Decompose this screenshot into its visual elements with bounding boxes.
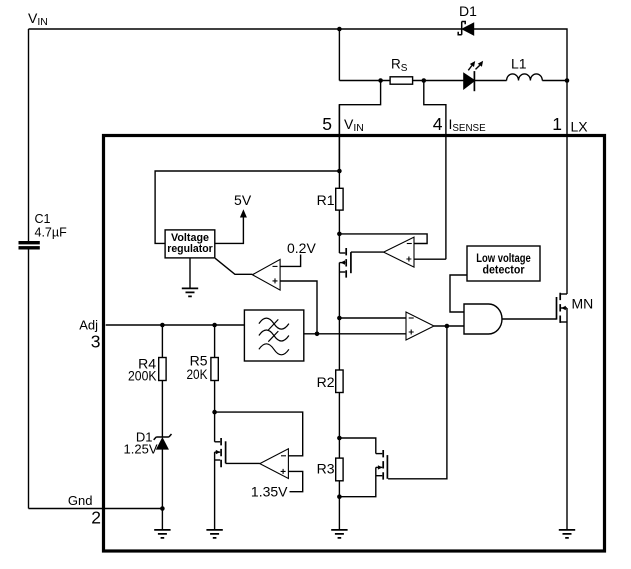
wire M3 source: [339, 467, 375, 496]
svg-text:2: 2: [91, 508, 101, 528]
junction dot R5 branch: [212, 323, 217, 328]
wire MN source to ground: [566, 308, 568, 530]
wire sense loop from VIN node: [339, 234, 427, 244]
svg-text:Adj: Adj: [79, 318, 98, 333]
transistor MN (output NMOS): [557, 293, 568, 323]
wire regulator branch: [155, 171, 339, 243]
wire comparator output to AND gate: [434, 325, 464, 327]
wire U1 minus input to 0.2V: [280, 255, 301, 267]
ground (MN): [559, 530, 575, 538]
resistor R1: [336, 188, 343, 210]
capacitor C1: [19, 241, 40, 250]
wire left rail below C1: [28, 250, 30, 509]
junction dot filter output: [315, 332, 320, 337]
wire second rail left: [339, 80, 390, 82]
op-amp U5 (1.35V, points left): [260, 449, 289, 479]
wire Adj to R5: [214, 325, 216, 358]
svg-text:detector: detector: [483, 265, 525, 277]
junction dot: [337, 27, 342, 32]
inductor L1: [507, 74, 543, 81]
junction dot R3 top: [337, 436, 342, 441]
svg-text:5V: 5V: [234, 192, 252, 208]
wire Adj line: [106, 324, 245, 326]
wire U1 plus input down to filter output node: [280, 281, 317, 334]
wire pin4 jog: [424, 81, 446, 260]
wire R3 to ground: [338, 481, 340, 530]
svg-text:20K: 20K: [187, 366, 209, 382]
svg-text:C1: C1: [35, 212, 51, 226]
wire M1 source rail down to comparator node: [338, 263, 340, 370]
svg-text:VIN: VIN: [344, 116, 364, 134]
junction dot LX top: [565, 78, 570, 83]
svg-text:3: 3: [91, 332, 101, 352]
label voltage regulator: [167, 232, 213, 255]
wire regulator to ground: [189, 258, 191, 288]
wire R4 to zener: [161, 381, 163, 438]
svg-text:R2: R2: [317, 374, 335, 390]
svg-text:ISENSE: ISENSE: [449, 116, 487, 134]
op-amp U2 (current sense, points left): [384, 237, 414, 267]
label low voltage detector: [476, 253, 531, 276]
junction dot RS right: [422, 78, 427, 83]
AND gate U4: [464, 304, 502, 334]
wire AND output to MN gate: [502, 318, 557, 320]
wire R5 to M2: [214, 381, 216, 442]
svg-text:MN: MN: [572, 296, 594, 312]
wire R2 to R3 node: [338, 393, 340, 459]
junction dot RS left: [378, 78, 383, 83]
wire LED to L1: [474, 80, 506, 82]
LED: [464, 61, 483, 91]
wire filter output to comparator: [304, 333, 406, 335]
wire detector to AND gate: [450, 275, 467, 312]
junction dot Gnd: [160, 506, 165, 511]
filter sine 3: [259, 344, 289, 355]
svg-text:R1: R1: [317, 192, 335, 208]
resistor RS: [390, 77, 413, 84]
svg-text:Gnd: Gnd: [68, 493, 93, 508]
transistor M3 (NMOS across R3): [376, 450, 388, 480]
wire regulator corner diagonal to op-amp U1 output: [215, 258, 252, 274]
junction dot R3 bottom: [337, 494, 342, 499]
filter box: [244, 310, 303, 361]
filter sine 1 with slash: [259, 318, 289, 330]
svg-text:VIN: VIN: [28, 10, 48, 28]
wire left VIN rail: [28, 29, 30, 241]
svg-text:L1: L1: [511, 56, 527, 72]
junction dot sense branch: [337, 232, 342, 237]
svg-text:200K: 200K: [128, 368, 157, 384]
wire RS to LED: [413, 80, 464, 82]
svg-text:regulator: regulator: [167, 243, 213, 255]
low voltage detector box: [467, 246, 540, 281]
resistor R3: [336, 458, 343, 481]
diode D1 (Schottky, top): [458, 22, 473, 35]
resistor R4: [159, 358, 166, 381]
IC package outline: [104, 136, 605, 552]
svg-text:4.7µF: 4.7µF: [35, 226, 68, 240]
wire U2 plus input to ISENSE: [414, 258, 446, 260]
junction dot comparator branch: [337, 316, 342, 321]
wire L1 to LX: [542, 80, 567, 82]
zener diode D1 (1.25V): [154, 434, 172, 449]
wire regulator to 5V arrow: [215, 217, 244, 244]
ground (regulator): [182, 288, 198, 296]
voltage regulator box: [165, 230, 215, 258]
wire U2 output to M1 gate: [351, 251, 384, 253]
wire M2 source to ground: [214, 452, 216, 529]
svg-text:1.25V: 1.25V: [124, 442, 158, 457]
wire Adj to R4: [161, 325, 163, 358]
wire U5 output to M2 gate: [226, 462, 260, 464]
wire pin1 LX drop: [566, 81, 568, 295]
svg-text:1: 1: [552, 114, 562, 134]
svg-text:Low voltage: Low voltage: [476, 253, 531, 265]
resistor R5: [211, 358, 218, 381]
ground (M2 R5): [206, 530, 222, 538]
svg-text:LX: LX: [571, 119, 589, 135]
resistor R2: [336, 370, 343, 393]
junction dot comparator output: [445, 324, 450, 329]
op-amp U1 (0.2V comparator, points left): [252, 259, 280, 290]
wire R1 to M1: [338, 210, 340, 253]
transistor M1 (PMOS near R1): [339, 248, 351, 278]
wire comparator output down to M3 gate: [388, 326, 447, 479]
filter sine 2 with slash: [259, 330, 289, 342]
ground (zener): [154, 530, 170, 538]
svg-text:D1: D1: [459, 3, 477, 19]
wire top VIN rail: [29, 28, 462, 30]
wire VIN rail inside IC to R1: [338, 105, 340, 189]
wire VIN drop to second rail: [338, 29, 340, 81]
5V arrow: [240, 209, 247, 217]
svg-text:0.2V: 0.2V: [287, 240, 316, 256]
wire pin5 jog: [339, 81, 380, 172]
svg-text:R3: R3: [317, 461, 335, 477]
wire M2 node feedback to op-amp minus: [215, 412, 303, 456]
svg-text:1.35V: 1.35V: [251, 484, 288, 500]
svg-text:4: 4: [433, 114, 443, 134]
ground (R2 R3 chain): [331, 530, 347, 538]
wire top rail right of D1: [474, 29, 568, 81]
junction dot regulator branch: [337, 169, 342, 174]
junction dot M2 drain node: [212, 410, 217, 415]
wire Gnd rail to pin 2: [29, 508, 163, 510]
wire comparator minus input: [339, 317, 406, 319]
svg-text:RS: RS: [391, 57, 408, 74]
junction dot R4 branch: [160, 323, 165, 328]
wire zener to ground: [161, 449, 163, 530]
svg-text:5: 5: [322, 114, 332, 134]
wire U5 plus input to 1.35V: [288, 471, 302, 491]
transistor M2 (NMOS near R5): [215, 438, 226, 467]
wire M3 drain: [339, 438, 375, 454]
comparator U3 (points right): [406, 312, 434, 340]
